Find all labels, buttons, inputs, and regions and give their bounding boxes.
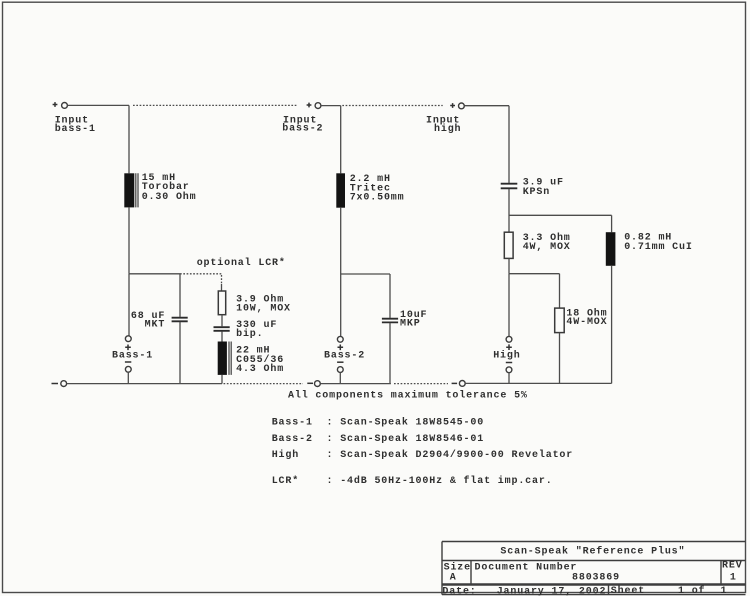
- inductor 2.2 mH: [336, 173, 345, 207]
- wire input bass-1 top: [67, 104, 129, 106]
- svg-text:Size: Size: [444, 561, 471, 573]
- svg-text:Bass-2 : Scan-Speak 18W8546-0: Bass-2 : Scan-Speak 18W8546-01: [272, 433, 484, 445]
- svg-text:1: 1: [730, 572, 737, 583]
- svg-text:High : Scan-Speak D2904/990: High : Scan-Speak D2904/9900-00 Revelato…: [272, 449, 573, 461]
- terminal minus bass-1 bus: [52, 381, 67, 387]
- value label 2.2 mH Tritec 7x0.50mm: [350, 174, 405, 204]
- wire: [611, 215, 613, 232]
- wire bus high: [465, 382, 611, 384]
- capacitor 10uF: [382, 319, 398, 323]
- capacitor 68 uF: [172, 318, 188, 322]
- wire dotted input bus bass-1 to bass-2: [133, 104, 298, 106]
- svg-text:LCR* : -4dB 50Hz-100Hz & fl: LCR* : -4dB 50Hz-100Hz & flat imp.car.: [272, 475, 553, 487]
- terminal Bass-2 minus: [337, 362, 343, 372]
- svg-text:high: high: [434, 123, 461, 135]
- title block frame: [442, 542, 746, 595]
- wire: [508, 189, 510, 232]
- terminal minus bass-2 bus: [307, 381, 320, 387]
- wire dotted bus bass-2 to high: [394, 383, 448, 385]
- wire: [128, 105, 130, 173]
- wire: [221, 375, 223, 384]
- wire: [389, 323, 391, 384]
- terminal + Input high: [450, 103, 464, 109]
- svg-text:Bass-1: Bass-1: [112, 350, 153, 361]
- svg-text:1: 1: [721, 586, 728, 596]
- svg-text:Date:: Date:: [442, 587, 476, 596]
- wire: [340, 106, 342, 174]
- wire: [559, 333, 561, 384]
- svg-text:4W, MOX: 4W, MOX: [523, 242, 571, 253]
- svg-text:0.30 Ohm: 0.30 Ohm: [142, 191, 197, 203]
- wire junction to shunt branch: [129, 273, 180, 275]
- svg-text:4W-MOX: 4W-MOX: [566, 317, 607, 328]
- svg-text:January 17, 2002: January 17, 2002: [497, 587, 607, 596]
- value label 22 mH C055/36 4.3 Ohm: [236, 346, 284, 375]
- svg-text:4.3 Ohm: 4.3 Ohm: [236, 363, 284, 375]
- value label 0.82 mH 0.71mm CuI: [624, 233, 693, 253]
- wire dotted bus bass-1 to bass-2: [224, 383, 304, 385]
- net label Input bass-1: [55, 116, 96, 135]
- value label 3.3 Ohm 4W MOX: [523, 232, 571, 253]
- wire: [340, 208, 342, 274]
- svg-text:Bass-2: Bass-2: [324, 350, 365, 361]
- wire: [508, 274, 510, 337]
- resistor 3.9 Ohm: [218, 291, 225, 315]
- wire: [127, 372, 129, 383]
- svg-text:bass-2: bass-2: [282, 122, 323, 134]
- terminal + Input bass-1: [53, 102, 68, 108]
- svg-text:High: High: [493, 349, 520, 361]
- wire: [508, 106, 510, 183]
- wire input high top: [464, 105, 509, 107]
- wire: [221, 332, 223, 342]
- inductor 22 mH: [218, 342, 232, 375]
- wire: [128, 274, 130, 336]
- capacitor 330 uF: [214, 327, 230, 331]
- wire: [128, 207, 130, 273]
- svg-text:MKT: MKT: [145, 319, 166, 330]
- wire dotted to optional LCR: [180, 274, 222, 284]
- terminal Bass-1 minus: [125, 362, 131, 372]
- svg-text:optional LCR*: optional LCR*: [197, 257, 286, 269]
- svg-text:1 of: 1 of: [678, 585, 705, 596]
- wire junction to cap branch: [341, 273, 390, 275]
- wire: [179, 274, 181, 317]
- resistor 3.3 Ohm: [504, 232, 513, 258]
- terminal High plus: [506, 336, 512, 350]
- wire: [340, 274, 342, 336]
- wire: [508, 258, 510, 273]
- wire: [559, 274, 561, 308]
- wire junction to tweeter shunt: [509, 214, 612, 216]
- wire: [611, 266, 613, 384]
- svg-text:Document Number: Document Number: [475, 561, 578, 573]
- value label 18 Ohm 4W-MOX: [566, 307, 607, 328]
- net label Input bass-2: [282, 115, 323, 134]
- wire bus bass-2: [320, 383, 391, 385]
- value label 3.9 uF KPSn: [523, 178, 564, 198]
- wire: [221, 315, 223, 327]
- wire: [508, 373, 510, 384]
- svg-text:bip.: bip.: [236, 328, 263, 340]
- svg-text:10W, MOX: 10W, MOX: [236, 304, 291, 315]
- svg-text:Sheet: Sheet: [611, 585, 645, 596]
- value label 3.9 Ohm 10W MOX: [236, 293, 291, 314]
- svg-text:KPSn: KPSn: [523, 187, 550, 198]
- inductor 15 mH: [124, 173, 138, 207]
- terminal + Input bass-2: [307, 103, 321, 109]
- terminal Bass-2 plus: [337, 336, 343, 350]
- terminal Bass-1 plus: [125, 336, 131, 350]
- capacitor 3.9 uF: [501, 184, 518, 189]
- value label 330 uF bip.: [236, 320, 277, 340]
- value label 10uF MKP: [400, 310, 427, 329]
- terminal minus high bus: [452, 381, 466, 387]
- value label 15 mH Torobar 0.30 Ohm: [142, 173, 197, 203]
- svg-text:Scan-Speak "Reference Plus": Scan-Speak "Reference Plus": [500, 546, 685, 558]
- wire: [389, 274, 391, 318]
- wire junction to 18 Ohm: [509, 273, 560, 275]
- svg-text:REV: REV: [722, 561, 743, 572]
- svg-text:7x0.50mm: 7x0.50mm: [350, 193, 405, 204]
- resistor 18 Ohm: [555, 308, 565, 333]
- svg-text:8803869: 8803869: [572, 572, 620, 583]
- wire: [221, 284, 223, 291]
- net label Input high: [426, 115, 461, 135]
- wire input bass-2 top: [321, 105, 341, 107]
- wire dotted input bus bass-2 to high: [342, 105, 442, 107]
- terminal High minus: [506, 363, 512, 373]
- svg-text:A: A: [450, 572, 457, 583]
- svg-text:All components maximum toleran: All components maximum tolerance 5%: [288, 390, 528, 402]
- inductor 0.82 mH: [606, 232, 616, 266]
- value label 68 uF MKT: [131, 311, 165, 330]
- svg-text:0.71mm CuI: 0.71mm CuI: [624, 242, 693, 253]
- wire: [179, 322, 181, 384]
- wire bus bass-1: [67, 383, 222, 385]
- svg-text:bass-1: bass-1: [55, 123, 96, 135]
- svg-text:MKP: MKP: [400, 319, 421, 330]
- svg-text:Bass-1 : Scan-Speak 18W8545-0: Bass-1 : Scan-Speak 18W8545-00: [272, 416, 484, 428]
- wire: [339, 373, 341, 384]
